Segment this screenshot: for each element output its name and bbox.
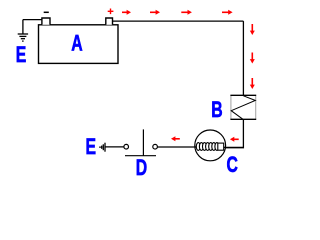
switch D left contact xyxy=(124,144,129,149)
current arrow right 3 xyxy=(181,10,192,15)
battery A body xyxy=(39,25,119,64)
svg-text:E: E xyxy=(16,44,27,68)
wire switch to motor coil xyxy=(158,146,198,148)
current arrow down 1 xyxy=(250,24,255,35)
switch D right contact xyxy=(153,144,158,149)
wire from ground to battery negative tab xyxy=(23,19,42,21)
svg-text:E: E xyxy=(86,136,97,160)
current arrow down 3 xyxy=(250,78,255,89)
ground (earth) symbol bottom, rotated left xyxy=(100,143,105,152)
battery negative terminal tab xyxy=(42,18,50,25)
motor coil loops xyxy=(196,143,223,151)
switch D plunger xyxy=(142,129,144,155)
current arrow right 2 xyxy=(150,10,160,15)
current arrow down 2 xyxy=(250,53,255,64)
wire coil to circle edge xyxy=(224,146,244,148)
minus polarity label xyxy=(44,11,49,13)
current arrow left (motor to switch) xyxy=(171,136,180,141)
wire left contact to ground xyxy=(106,146,124,148)
resistor B zigzag xyxy=(231,96,255,120)
current arrow right 1 xyxy=(122,10,131,15)
svg-text:B: B xyxy=(211,99,222,123)
switch D bar xyxy=(125,155,156,157)
wire top (battery + to top-right corner) xyxy=(113,20,244,22)
current arrow right 4 xyxy=(222,10,233,15)
ground (earth) symbol top-left xyxy=(18,20,28,41)
svg-text:C: C xyxy=(227,154,239,178)
current arrow left (into motor) xyxy=(230,137,239,142)
motor C circle xyxy=(195,130,226,161)
wire right vertical (corner down to resistor) xyxy=(242,21,244,95)
svg-text:A: A xyxy=(71,32,83,56)
svg-text:D: D xyxy=(136,157,148,181)
battery positive terminal tab xyxy=(106,18,113,25)
plus polarity label xyxy=(108,9,114,15)
wire resistor to motor (down then left) xyxy=(226,119,244,147)
resistor B box xyxy=(230,95,256,119)
